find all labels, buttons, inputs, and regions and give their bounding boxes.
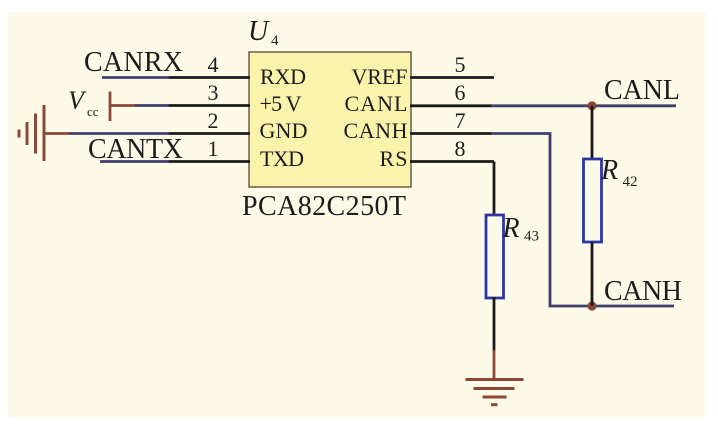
svg-text:GND: GND	[260, 118, 308, 143]
IC U4 body (PCA82C250T CAN transceiver)	[249, 52, 411, 187]
wire R42 to CANH dot	[591, 242, 594, 306]
ground (bottom)	[466, 380, 524, 405]
svg-text:2: 2	[208, 108, 219, 133]
wire RS pin down to R43	[493, 162, 496, 217]
svg-text:CANRX: CANRX	[84, 47, 183, 78]
wire CANL dot to R42	[591, 106, 594, 160]
svg-text:7: 7	[455, 108, 466, 133]
svg-text:R: R	[600, 155, 618, 186]
U4 reference designator	[248, 16, 279, 49]
wire CANRX net	[102, 76, 169, 79]
node CANL junction	[587, 101, 596, 110]
pin 3 stub +5V	[168, 104, 250, 107]
wire ground stub	[493, 350, 496, 380]
resistor R42	[584, 159, 602, 242]
Vcc power symbol	[109, 92, 135, 122]
svg-text:6: 6	[455, 80, 466, 105]
wire GND net	[68, 132, 169, 135]
resistor R43	[486, 215, 504, 298]
pin 7 stub CANH	[410, 132, 492, 135]
R42 label	[600, 155, 638, 190]
svg-text:TXD: TXD	[260, 146, 304, 171]
svg-text:CANTX: CANTX	[88, 134, 183, 165]
wire R43 down	[493, 297, 496, 351]
wire Vcc net	[134, 104, 169, 107]
svg-text:CANL: CANL	[345, 91, 408, 116]
svg-text:5: 5	[455, 52, 466, 77]
svg-text:RS: RS	[380, 146, 408, 171]
svg-text:+5 V: +5 V	[260, 91, 302, 116]
pin 2 stub GND	[168, 132, 250, 135]
svg-text:VREF: VREF	[352, 64, 408, 89]
pin 4 stub RXD	[168, 76, 250, 79]
svg-text:4: 4	[208, 52, 219, 77]
svg-text:U: U	[248, 16, 270, 47]
R43 label	[502, 213, 540, 245]
wire CANH net: pin7 to corner	[491, 134, 674, 307]
pin 1 stub TXD	[168, 160, 250, 163]
svg-text:4: 4	[271, 33, 279, 49]
svg-text:CANH: CANH	[604, 276, 682, 307]
Vcc label	[68, 86, 99, 119]
svg-text:PCA82C250T: PCA82C250T	[242, 191, 406, 222]
pin 5 stub VREF	[410, 76, 494, 79]
svg-text:1: 1	[208, 136, 219, 161]
node CANH junction	[587, 301, 596, 310]
wire CANTX net	[100, 160, 169, 163]
svg-text:3: 3	[208, 80, 219, 105]
pin 8 stub RS	[410, 160, 494, 163]
svg-text:CANL: CANL	[604, 75, 680, 106]
svg-text:cc: cc	[87, 104, 99, 119]
pin 6 stub CANL	[410, 104, 492, 107]
svg-text:43: 43	[524, 229, 539, 245]
wire CANL net horizontal	[491, 104, 676, 107]
svg-text:CANH: CANH	[344, 118, 408, 143]
svg-text:8: 8	[455, 136, 466, 161]
svg-text:RXD: RXD	[260, 64, 306, 89]
svg-text:42: 42	[623, 174, 638, 190]
svg-text:R: R	[502, 213, 520, 244]
ground (left, rotated)	[19, 105, 69, 161]
